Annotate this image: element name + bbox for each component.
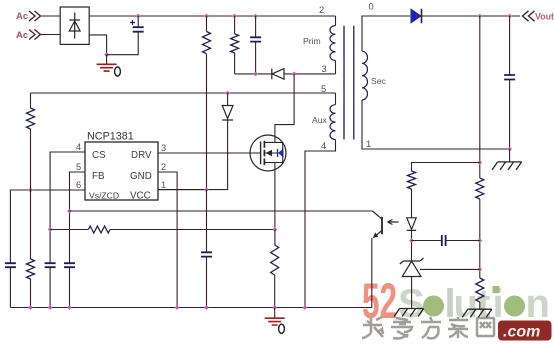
wire bulk rail <box>89 15 335 17</box>
node rail junction 1 <box>28 305 33 310</box>
watermark logo "Solution" letters <box>398 282 550 326</box>
node VCC junction <box>204 187 209 192</box>
svg-text:4: 4 <box>76 142 81 152</box>
resistor current sense <box>271 245 279 275</box>
label Prim <box>303 36 321 46</box>
node rail junction 4 <box>175 305 180 310</box>
wire secondary ground stub <box>509 149 511 162</box>
wire LED bottom <box>411 230 413 260</box>
pin 3 label <box>161 143 166 153</box>
node bridge negative junction <box>104 52 109 57</box>
optocoupler light arrow <box>388 220 399 225</box>
wire aux divider top <box>30 93 32 108</box>
transformer secondary winding <box>362 51 368 100</box>
svg-text:Vs/ZCD: Vs/ZCD <box>89 191 119 201</box>
resistor startup <box>203 32 211 54</box>
node rail junction 7 <box>303 305 308 310</box>
svg-text:1: 1 <box>366 139 371 149</box>
transformer aux winding <box>330 105 336 140</box>
svg-text:5: 5 <box>76 162 81 172</box>
svg-text:CS: CS <box>92 150 106 161</box>
node rail junction 6 <box>272 305 277 310</box>
wire divider mid <box>479 199 481 278</box>
wire VCC cap bottom <box>206 257 208 308</box>
svg-text:n: n <box>526 282 550 326</box>
node bulk cap junction <box>136 14 141 19</box>
wire ZCD lower to ground <box>30 279 32 308</box>
svg-text:1: 1 <box>161 180 166 190</box>
wire LED top <box>411 189 413 218</box>
capacitor CS filter <box>45 263 56 267</box>
capacitor bulk (polarized) <box>130 20 144 32</box>
node snubber cap tap <box>253 71 258 76</box>
resistor ZCD lower <box>27 259 35 279</box>
wire CS cap to ground <box>49 267 51 307</box>
wire TL431 ref <box>420 268 480 270</box>
capacitor ZCD filter <box>5 263 16 267</box>
wire FB pin <box>70 172 86 263</box>
wire ground 0 stub <box>274 308 276 318</box>
watermark text 网 <box>477 318 494 336</box>
wire primary pin2 <box>335 16 337 26</box>
wire IC GND <box>158 172 177 308</box>
wire CS sense left <box>50 229 88 231</box>
svg-text:NCP1381: NCP1381 <box>87 131 134 143</box>
svg-text:Aux: Aux <box>312 115 328 125</box>
pin 6 label <box>76 180 81 190</box>
diode snubber clamp <box>272 69 284 80</box>
wire snubber C top <box>255 16 257 37</box>
wire CS pin <box>50 152 85 263</box>
pin 3 transformer label <box>322 64 327 74</box>
node divider top junction <box>477 160 482 165</box>
pin 4 transformer label <box>321 141 326 151</box>
transistor optocoupler output <box>372 211 382 238</box>
pin 1 transformer label <box>366 139 371 149</box>
transistor MOSFET switch <box>250 135 286 171</box>
wire source to sense resistor <box>274 230 276 246</box>
svg-text:3: 3 <box>322 64 327 74</box>
wire aux top <box>335 93 337 105</box>
node switch node junction <box>292 71 297 76</box>
wire secondary top <box>362 16 411 51</box>
capacitor output <box>504 75 515 80</box>
diode VCC rectifier <box>222 106 233 121</box>
node FB junction <box>67 209 72 214</box>
bridge rectifier <box>60 7 89 44</box>
ground secondary <box>492 162 521 170</box>
regulator TL431 <box>400 258 424 277</box>
wire output cap bottom <box>509 80 511 150</box>
capacitor snubber <box>250 37 261 41</box>
node startup resistor junction <box>204 14 209 19</box>
pin 5 label <box>76 162 81 172</box>
wire divider to ground <box>479 302 481 309</box>
wire divider top <box>479 16 481 178</box>
node snubber C junction <box>253 14 258 19</box>
port Ac (neutral) <box>16 30 41 42</box>
wire bulk cap bottom <box>107 32 139 55</box>
wire FB to optocoupler <box>70 210 373 212</box>
svg-text:.com: .com <box>503 324 540 341</box>
node CS sense junction <box>48 227 53 232</box>
node secondary return junction <box>507 147 512 152</box>
label Aux <box>312 115 328 125</box>
wire VCC cap top <box>206 190 208 253</box>
wire Ac neutral to bridge <box>41 34 60 36</box>
wire snubber R top <box>234 16 236 34</box>
wire output cap top <box>509 16 511 75</box>
ground 0 (primary) <box>265 318 285 333</box>
wire primary pin3 <box>335 61 337 74</box>
diode output rectifier <box>411 9 422 24</box>
wire FB cap to ground <box>69 267 71 307</box>
watermark text 我 <box>362 317 383 338</box>
wire ZCD pin <box>10 190 85 263</box>
resistor ZCD upper <box>27 108 35 129</box>
svg-text:4: 4 <box>321 141 326 151</box>
node output junction 2 <box>507 14 512 19</box>
svg-text:3: 3 <box>161 143 166 153</box>
port Ac (line) <box>16 11 41 22</box>
svg-text:FB: FB <box>92 171 105 182</box>
node cap link junction right <box>477 238 482 243</box>
transformer core <box>344 26 354 140</box>
wire secondary bottom <box>362 100 510 149</box>
ground 0 (input) <box>97 64 121 76</box>
node source sense junction <box>272 227 277 232</box>
resistor LED series <box>408 171 416 189</box>
capacitor VCC <box>201 252 212 256</box>
watermark .com box <box>498 321 552 341</box>
svg-text:Sec: Sec <box>371 76 387 86</box>
resistor divider lower <box>476 278 484 302</box>
wire MOSFET source <box>274 163 276 230</box>
transformer primary winding <box>330 26 336 61</box>
node TL431 ref junction <box>477 267 482 272</box>
svg-text:Prim: Prim <box>303 36 321 46</box>
wire diode to pin3 <box>284 73 336 75</box>
svg-text:Vout: Vout <box>535 12 554 22</box>
wire startup to VCC node <box>206 54 208 190</box>
wire bridge negative <box>89 35 106 55</box>
svg-text:GND: GND <box>130 171 152 182</box>
op-amp U1 NCP1381 box <box>85 131 158 202</box>
wire Ac line to bridge <box>41 15 60 17</box>
node aux to VCC diode <box>225 91 230 96</box>
wire ZCD cap to ground <box>9 267 11 307</box>
node ZCD divider junction <box>28 188 33 193</box>
svg-text:2: 2 <box>319 5 324 15</box>
wire CS sense right <box>110 229 275 231</box>
wire snubber R bottom <box>234 53 236 74</box>
ground divider <box>462 309 492 317</box>
label Sec <box>371 76 387 86</box>
watermark text 爱 <box>391 318 412 339</box>
pin 1 label <box>161 180 166 190</box>
resistor divider upper <box>476 178 484 199</box>
ground TL431 <box>394 309 424 317</box>
pin 2 transformer label <box>319 5 324 15</box>
pin 2 label <box>161 162 166 172</box>
wire sense resistor to ground <box>274 275 276 308</box>
node output junction 1 <box>477 14 482 19</box>
capacitor feedback link <box>442 235 446 246</box>
node rail junction 2 <box>48 305 53 310</box>
wire output rail <box>422 15 521 17</box>
wire snubber C bottom <box>255 42 257 74</box>
watermark text 案 <box>448 317 468 338</box>
wire TL431 anode <box>411 277 413 309</box>
node rail junction 5 <box>204 305 209 310</box>
pin 0 transformer label <box>369 2 374 12</box>
svg-text:VCC: VCC <box>130 191 151 202</box>
wire ground stub bridge <box>106 55 108 64</box>
wire startup top <box>206 16 208 32</box>
node rail junction 3 <box>67 305 72 310</box>
wire bulk cap top <box>137 16 139 27</box>
wire DRV to gate <box>158 152 261 154</box>
wire snubber bottom <box>235 73 272 75</box>
wire aux pin4 <box>305 140 336 308</box>
wire switch node to drain <box>275 74 294 142</box>
wire ZCD mid <box>30 129 32 259</box>
wire aux pin5 line <box>31 92 336 94</box>
svg-text:Ac: Ac <box>16 11 28 22</box>
wire VCC diode top <box>227 93 229 106</box>
wire VCC diode bottom <box>158 120 228 190</box>
wire ground rail <box>10 307 371 309</box>
node LED cathode junction <box>409 238 414 243</box>
capacitor FB filter <box>64 263 75 267</box>
watermark logo o-discs <box>423 296 444 317</box>
resistor CS sense series <box>88 226 110 233</box>
svg-text:52: 52 <box>362 273 397 329</box>
svg-text:DRV: DRV <box>131 150 152 161</box>
node snubber R junction <box>232 14 237 19</box>
wire cap link left <box>412 240 442 242</box>
svg-text:5: 5 <box>321 84 326 94</box>
wire cap link right <box>446 240 480 242</box>
port Vout <box>523 11 554 22</box>
resistor snubber <box>231 34 239 53</box>
wire divider link <box>412 163 480 172</box>
wire optocoupler emitter <box>371 238 373 308</box>
diode optocoupler LED <box>407 218 416 231</box>
wire VCC pin <box>158 189 207 191</box>
svg-text:6: 6 <box>76 180 81 190</box>
svg-text:2: 2 <box>161 162 166 172</box>
svg-text:0: 0 <box>369 2 374 12</box>
svg-text:Ac: Ac <box>16 30 28 41</box>
pin 4 label <box>76 142 81 152</box>
watermark text 方 <box>421 317 441 338</box>
pin 5 transformer label <box>321 84 326 94</box>
